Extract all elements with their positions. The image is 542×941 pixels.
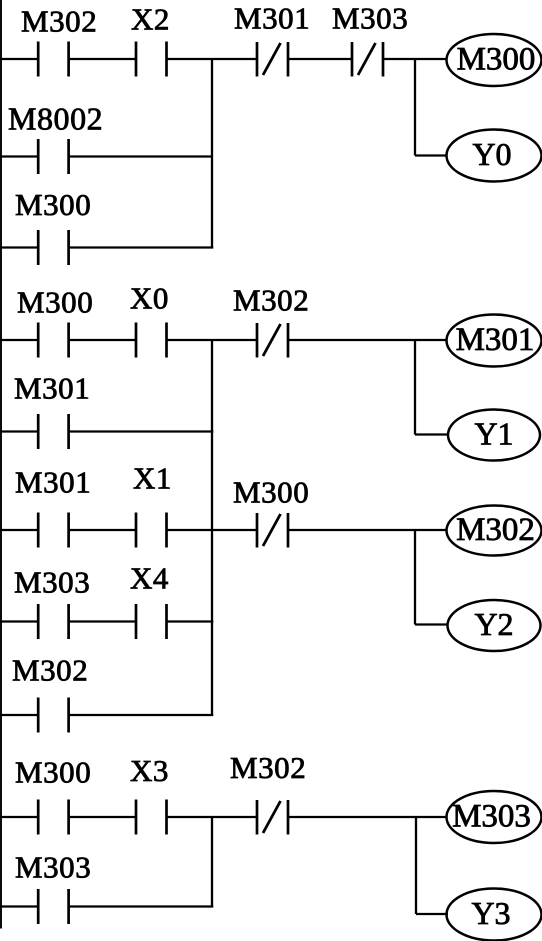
wire: M303 branch to junction xyxy=(69,905,214,907)
wire: M300 branch rail to contact xyxy=(0,246,38,248)
svg-text:Y3: Y3 xyxy=(471,895,510,931)
svg-text:M303: M303 xyxy=(14,565,90,600)
wire: M8002 to junction xyxy=(69,155,212,157)
contact M8002 xyxy=(38,139,68,174)
contact M301 (rung 3) xyxy=(38,513,68,548)
svg-text:X3: X3 xyxy=(130,753,169,788)
svg-text:M8002: M8002 xyxy=(8,101,103,137)
svg-text:M302: M302 xyxy=(456,512,535,548)
contact X4 xyxy=(136,604,167,639)
wire: M303 to X4 xyxy=(69,620,136,622)
contact X3 xyxy=(136,800,167,835)
rung 4 wire: rail to contact M300 xyxy=(0,816,38,818)
wire: M302 to X2 xyxy=(69,58,136,60)
contact X1 xyxy=(136,513,167,548)
coil M301 xyxy=(447,315,542,367)
svg-text:M300: M300 xyxy=(17,285,93,320)
svg-text:X2: X2 xyxy=(131,2,170,37)
svg-text:M300: M300 xyxy=(457,42,536,78)
left power rail xyxy=(0,0,2,929)
wire: M8002 branch rail to contact xyxy=(0,155,38,157)
wire: M301 NC to M303 NC xyxy=(288,58,352,60)
wire: M300 branch to junction xyxy=(69,246,214,248)
wire: X3 through node to NC contact M302 xyxy=(167,816,258,818)
NC contact M301 (rung 1) xyxy=(257,42,288,77)
wire: M301 branch to junction xyxy=(69,430,214,432)
junction vertical rungs 2-3 xyxy=(211,340,213,715)
wire: branch down to coil Y1 xyxy=(415,340,448,435)
wire: X1 through node to NC contact M300 xyxy=(167,529,258,531)
coil Y1 xyxy=(448,410,540,461)
svg-text:X4: X4 xyxy=(130,561,169,596)
wire: X0 through node to NC contact M302 xyxy=(167,339,258,341)
svg-text:Y1: Y1 xyxy=(474,416,513,452)
wire: X4 branch to junction xyxy=(167,620,214,622)
wire: M301 branch rail to contact xyxy=(0,430,38,432)
wire: branch down to coil Y3 xyxy=(416,817,448,914)
rung 3 wire: rail to contact M301 xyxy=(0,529,38,531)
svg-text:M303: M303 xyxy=(452,799,531,835)
coil M300 xyxy=(447,34,542,86)
contact M303 (rung 4 branch) xyxy=(38,889,68,924)
svg-text:M300: M300 xyxy=(15,755,91,790)
wire: M300 NC to coil M302 xyxy=(288,529,447,531)
svg-text:M301: M301 xyxy=(14,371,90,406)
wire: M302 branch to junction xyxy=(69,714,214,716)
coil Y2 xyxy=(448,600,541,651)
coil M302 xyxy=(447,506,542,556)
wire: M301 to X1 xyxy=(69,529,136,531)
wire: M300 to X0 xyxy=(69,339,136,341)
contact X2 xyxy=(136,42,167,77)
contact M302 (rung 1) xyxy=(38,42,68,77)
NC contact M300 (rung 3) xyxy=(257,513,288,548)
contact M300 (rung 1 branch) xyxy=(38,230,68,265)
svg-text:M301: M301 xyxy=(15,465,91,500)
wire: branch down to coil Y0 xyxy=(415,59,447,156)
svg-text:M303: M303 xyxy=(332,1,408,36)
NC contact M303 (rung 1) xyxy=(352,42,383,77)
svg-text:M302: M302 xyxy=(233,283,309,318)
svg-text:M300: M300 xyxy=(15,187,91,222)
NC contact M302 (rung 4) xyxy=(257,800,288,835)
contact M301 (rung 2 branch) xyxy=(38,414,68,449)
wire: M303 NC to coil M300 xyxy=(383,58,447,60)
rung 1 wire: rail to contact M302 xyxy=(0,58,38,60)
rung 2 wire: rail to contact M300 xyxy=(0,339,38,341)
wire: M300 to X3 xyxy=(69,816,136,818)
junction vertical rung 1 xyxy=(211,59,213,248)
contact X0 xyxy=(136,323,167,358)
wire: M302 NC to coil M303 xyxy=(288,816,447,818)
contact M300 (rung 4) xyxy=(38,800,68,835)
svg-text:X1: X1 xyxy=(133,461,172,496)
wire: M302 branch rail to contact xyxy=(0,714,38,716)
contact M302 (rung 3 branch 2) xyxy=(38,698,68,733)
svg-text:M302: M302 xyxy=(12,653,88,688)
coil Y3 xyxy=(447,889,542,941)
NC contact M302 (rung 2) xyxy=(257,323,288,358)
wire: branch down to coil Y2 xyxy=(415,530,448,625)
svg-text:M300: M300 xyxy=(233,475,309,510)
wire: M303 branch rail to contact xyxy=(0,905,38,907)
contact M300 (rung 2) xyxy=(38,323,68,358)
contact M303 (rung 3 branch) xyxy=(38,604,68,639)
svg-text:M302: M302 xyxy=(21,4,97,39)
coil M303 xyxy=(447,791,542,843)
svg-text:Y2: Y2 xyxy=(474,606,513,642)
svg-text:M301: M301 xyxy=(234,1,310,36)
coil Y0 xyxy=(447,130,542,182)
wire: M302 NC to coil M301 xyxy=(288,339,447,341)
svg-text:M302: M302 xyxy=(230,750,306,785)
svg-text:X0: X0 xyxy=(130,281,169,316)
wire: X2 through node to NC contact M301 xyxy=(167,58,258,60)
svg-text:Y0: Y0 xyxy=(472,136,511,172)
svg-text:M303: M303 xyxy=(15,850,91,885)
junction vertical rung 4 xyxy=(211,817,213,907)
svg-text:M301: M301 xyxy=(456,322,535,358)
wire: M303 branch rail to contact xyxy=(0,620,38,622)
